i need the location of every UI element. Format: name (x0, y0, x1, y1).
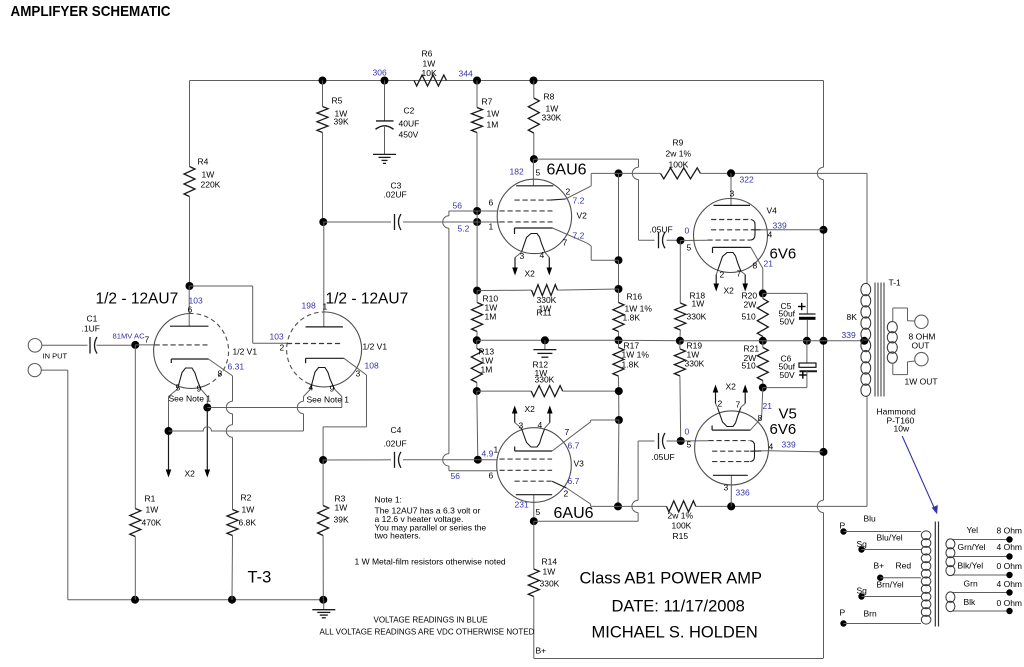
svg-text:6AU6: 6AU6 (547, 162, 587, 179)
svg-text:.05UF: .05UF (650, 225, 673, 235)
svg-text:1/2 V1: 1/2 V1 (233, 347, 258, 357)
svg-text:Yel: Yel (967, 525, 979, 535)
svg-text:2: 2 (718, 399, 723, 409)
svg-text:0: 0 (685, 427, 690, 437)
svg-text:See Note 1: See Note 1 (169, 394, 212, 404)
svg-text:R9: R9 (673, 138, 684, 148)
svg-text:B+: B+ (536, 646, 547, 656)
svg-text:5: 5 (687, 440, 692, 450)
svg-text:7.2: 7.2 (573, 231, 585, 241)
svg-text:1W: 1W (423, 59, 436, 69)
svg-text:1M: 1M (487, 120, 499, 130)
svg-text:330K: 330K (685, 359, 705, 369)
svg-text:R2: R2 (241, 493, 252, 503)
svg-text:4: 4 (768, 230, 773, 240)
svg-text:450V: 450V (399, 130, 419, 140)
svg-text:2W: 2W (744, 300, 757, 310)
svg-text:R11: R11 (537, 308, 552, 318)
svg-text:339: 339 (782, 440, 796, 450)
svg-text:4: 4 (769, 442, 774, 452)
svg-text:2: 2 (564, 489, 569, 499)
svg-text:336: 336 (736, 488, 750, 498)
svg-text:330K: 330K (542, 113, 562, 123)
svg-text:ALL VOLTAGE READINGS ARE VDC O: ALL VOLTAGE READINGS ARE VDC OTHERWISE N… (320, 628, 535, 637)
svg-text:Red: Red (896, 561, 912, 571)
svg-text:40UF: 40UF (399, 119, 420, 129)
svg-text:C4: C4 (391, 425, 402, 435)
svg-text:1M: 1M (481, 365, 493, 375)
svg-text:R5: R5 (332, 96, 343, 106)
svg-text:220K: 220K (201, 180, 221, 190)
svg-text:6.8K: 6.8K (239, 518, 257, 528)
svg-text:510: 510 (742, 312, 756, 322)
svg-text:5: 5 (687, 243, 692, 253)
svg-text:Brn: Brn (864, 609, 878, 619)
svg-text:1: 1 (489, 222, 494, 232)
svg-text:103: 103 (270, 332, 284, 342)
svg-text:C2: C2 (404, 106, 415, 116)
svg-text:1: 1 (323, 302, 328, 312)
svg-text:6V6: 6V6 (770, 246, 797, 263)
svg-text:6V6: 6V6 (770, 421, 797, 438)
svg-text:1W: 1W (335, 503, 348, 513)
svg-text:182: 182 (510, 167, 524, 177)
svg-text:MICHAEL S. HOLDEN: MICHAEL S. HOLDEN (592, 624, 758, 642)
svg-text:330K: 330K (687, 312, 707, 322)
svg-text:2: 2 (720, 270, 725, 280)
svg-text:.1UF: .1UF (82, 324, 100, 334)
svg-text:7: 7 (565, 427, 570, 437)
svg-text:10w: 10w (894, 424, 910, 434)
svg-text:6: 6 (188, 305, 193, 315)
svg-text:OUT: OUT (912, 341, 930, 351)
svg-text:P: P (840, 608, 846, 618)
svg-text:1/2 - 12AU7: 1/2 - 12AU7 (96, 291, 179, 308)
svg-text:Blk: Blk (964, 597, 977, 607)
svg-text:39K: 39K (334, 515, 349, 525)
svg-text:1/2 - 12AU7: 1/2 - 12AU7 (326, 291, 409, 308)
svg-text:X2: X2 (724, 286, 735, 296)
svg-text:2: 2 (280, 343, 285, 353)
svg-text:5: 5 (536, 507, 541, 517)
svg-text:0 Ohm: 0 Ohm (997, 598, 1023, 608)
svg-text:3: 3 (724, 483, 729, 493)
svg-text:1.8K: 1.8K (622, 360, 640, 370)
svg-text:100K: 100K (672, 521, 692, 531)
svg-text:339: 339 (842, 330, 856, 340)
svg-text:Grn: Grn (964, 579, 978, 589)
svg-text:344: 344 (459, 69, 473, 79)
svg-text:510: 510 (742, 361, 756, 371)
svg-text:X2: X2 (726, 382, 737, 392)
svg-text:1W: 1W (202, 170, 215, 180)
svg-text:3: 3 (519, 421, 524, 431)
svg-text:8: 8 (218, 369, 223, 379)
svg-text:4: 4 (540, 250, 545, 260)
svg-text:6.7: 6.7 (568, 441, 580, 451)
svg-text:1/2 V1: 1/2 V1 (363, 342, 388, 352)
svg-text:1W: 1W (543, 567, 556, 577)
svg-text:8K: 8K (847, 312, 858, 322)
svg-text:1W 1%: 1W 1% (622, 350, 650, 360)
svg-text:Class AB1 POWER AMP: Class AB1 POWER AMP (580, 570, 762, 588)
svg-text:1: 1 (494, 445, 499, 455)
svg-text:0: 0 (685, 226, 690, 236)
svg-text:X2: X2 (525, 269, 536, 279)
svg-text:V4: V4 (767, 206, 778, 216)
svg-text:5: 5 (536, 168, 541, 178)
svg-text:322: 322 (740, 175, 754, 185)
svg-text:56: 56 (453, 201, 463, 211)
svg-text:10K: 10K (422, 68, 437, 78)
svg-text:3: 3 (730, 189, 735, 199)
svg-text:Grn/Yel: Grn/Yel (958, 542, 986, 552)
svg-text:P: P (840, 521, 846, 531)
svg-text:X2: X2 (185, 469, 196, 479)
svg-text:Brn/Yel: Brn/Yel (877, 580, 904, 590)
svg-text:470K: 470K (142, 518, 162, 528)
svg-text:21: 21 (763, 401, 773, 411)
svg-text:Note 1:: Note 1: (375, 495, 402, 505)
svg-text:R7: R7 (482, 97, 493, 107)
svg-text:1W: 1W (146, 505, 159, 515)
svg-text:6.31: 6.31 (228, 362, 245, 372)
svg-text:1M: 1M (485, 312, 497, 322)
svg-text:IN PUT: IN PUT (43, 352, 68, 361)
svg-text:T-3: T-3 (248, 569, 272, 587)
svg-text:R6: R6 (422, 49, 433, 59)
svg-text:4: 4 (309, 383, 314, 393)
svg-text:6: 6 (489, 198, 494, 208)
svg-text:7: 7 (563, 238, 568, 248)
svg-text:DATE: 11/17/2008: DATE: 11/17/2008 (612, 598, 745, 616)
svg-text:5: 5 (176, 383, 181, 393)
svg-text:8: 8 (753, 261, 758, 271)
svg-text:1 W Metal-film resistors other: 1 W Metal-film resistors otherwise noted (355, 557, 506, 567)
svg-text:R4: R4 (198, 157, 209, 167)
svg-text:Sg: Sg (857, 586, 868, 596)
svg-text:B+: B+ (874, 561, 885, 571)
svg-text:4.9: 4.9 (482, 449, 494, 459)
svg-text:198: 198 (302, 301, 316, 311)
svg-text:AMPLIFYER SCHEMATIC: AMPLIFYER SCHEMATIC (11, 3, 171, 20)
svg-text:4 Ohm: 4 Ohm (997, 579, 1023, 589)
svg-text:V3: V3 (574, 459, 585, 469)
svg-text:50V: 50V (780, 317, 795, 327)
svg-text:R1: R1 (145, 494, 156, 504)
svg-text:6AU6: 6AU6 (554, 505, 594, 522)
svg-text:See Note 1: See Note 1 (307, 395, 350, 405)
svg-text:2w 1%: 2w 1% (668, 511, 694, 521)
svg-text:C1: C1 (87, 314, 98, 324)
svg-text:1W OUT: 1W OUT (905, 377, 938, 387)
svg-text:21: 21 (764, 259, 774, 269)
svg-text:56: 56 (451, 471, 461, 481)
svg-text:R14: R14 (542, 557, 558, 567)
svg-text:.05UF: .05UF (652, 452, 675, 462)
svg-text:2: 2 (566, 187, 571, 197)
svg-text:4 Ohm: 4 Ohm (997, 542, 1023, 552)
svg-text:7: 7 (145, 335, 150, 345)
svg-text:4: 4 (538, 420, 543, 430)
svg-text:8 Ohm: 8 Ohm (997, 526, 1023, 536)
svg-text:R21: R21 (744, 344, 760, 354)
svg-text:X2: X2 (525, 404, 536, 414)
svg-text:306: 306 (373, 68, 387, 78)
svg-text:81MV AC: 81MV AC (113, 332, 146, 341)
svg-text:1W: 1W (692, 299, 705, 309)
svg-text:V5: V5 (779, 406, 797, 423)
svg-text:Blk/Yel: Blk/Yel (958, 561, 984, 571)
svg-text:6.7: 6.7 (568, 476, 580, 486)
svg-text:6: 6 (489, 471, 494, 481)
svg-text:Blu: Blu (864, 514, 877, 524)
svg-text:339: 339 (773, 221, 787, 231)
svg-text:5.2: 5.2 (458, 224, 470, 234)
svg-text:VOLTAGE READINGS IN BLUE: VOLTAGE READINGS IN BLUE (374, 616, 488, 625)
svg-text:1W: 1W (242, 505, 255, 515)
svg-text:R15: R15 (673, 531, 689, 541)
svg-text:1W: 1W (487, 109, 500, 119)
svg-text:3: 3 (520, 251, 525, 261)
svg-text:V2: V2 (577, 211, 588, 221)
svg-text:7.2: 7.2 (573, 196, 585, 206)
svg-text:9: 9 (330, 384, 335, 394)
svg-text:330K: 330K (540, 579, 560, 589)
svg-text:two heaters.: two heaters. (375, 531, 421, 541)
svg-text:9: 9 (197, 384, 202, 394)
svg-text:.02UF: .02UF (384, 190, 407, 200)
svg-text:1.8K: 1.8K (623, 313, 641, 323)
svg-text:100K: 100K (669, 160, 689, 170)
svg-text:Blu/Yel: Blu/Yel (877, 533, 903, 543)
svg-text:0 Ohm: 0 Ohm (997, 561, 1023, 571)
svg-text:39K: 39K (334, 117, 349, 127)
svg-text:50V: 50V (780, 370, 795, 380)
svg-text:108: 108 (365, 361, 379, 371)
svg-text:231: 231 (515, 500, 529, 510)
svg-text:8: 8 (758, 413, 763, 423)
svg-text:7: 7 (737, 269, 742, 279)
svg-text:7: 7 (736, 400, 741, 410)
svg-text:3: 3 (356, 369, 361, 379)
svg-text:R8: R8 (544, 92, 555, 102)
svg-text:Sg: Sg (857, 539, 868, 549)
svg-text:T-1: T-1 (889, 278, 902, 288)
svg-text:2w 1%: 2w 1% (666, 149, 692, 159)
svg-text:.02UF: .02UF (384, 439, 407, 449)
svg-text:330K: 330K (535, 375, 555, 385)
svg-text:R16: R16 (627, 292, 643, 302)
